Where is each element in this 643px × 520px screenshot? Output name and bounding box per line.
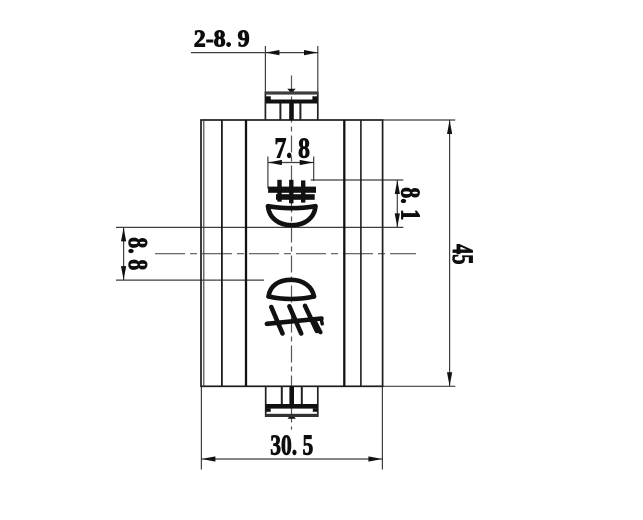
svg-text:30. 5: 30. 5: [270, 431, 313, 462]
svg-text:7. 8: 7. 8: [274, 133, 310, 164]
svg-text:45: 45: [446, 244, 478, 265]
svg-text:8. 8: 8. 8: [123, 237, 153, 270]
svg-text:8. 1: 8. 1: [396, 187, 426, 220]
svg-text:2-8. 9: 2-8. 9: [194, 26, 250, 52]
